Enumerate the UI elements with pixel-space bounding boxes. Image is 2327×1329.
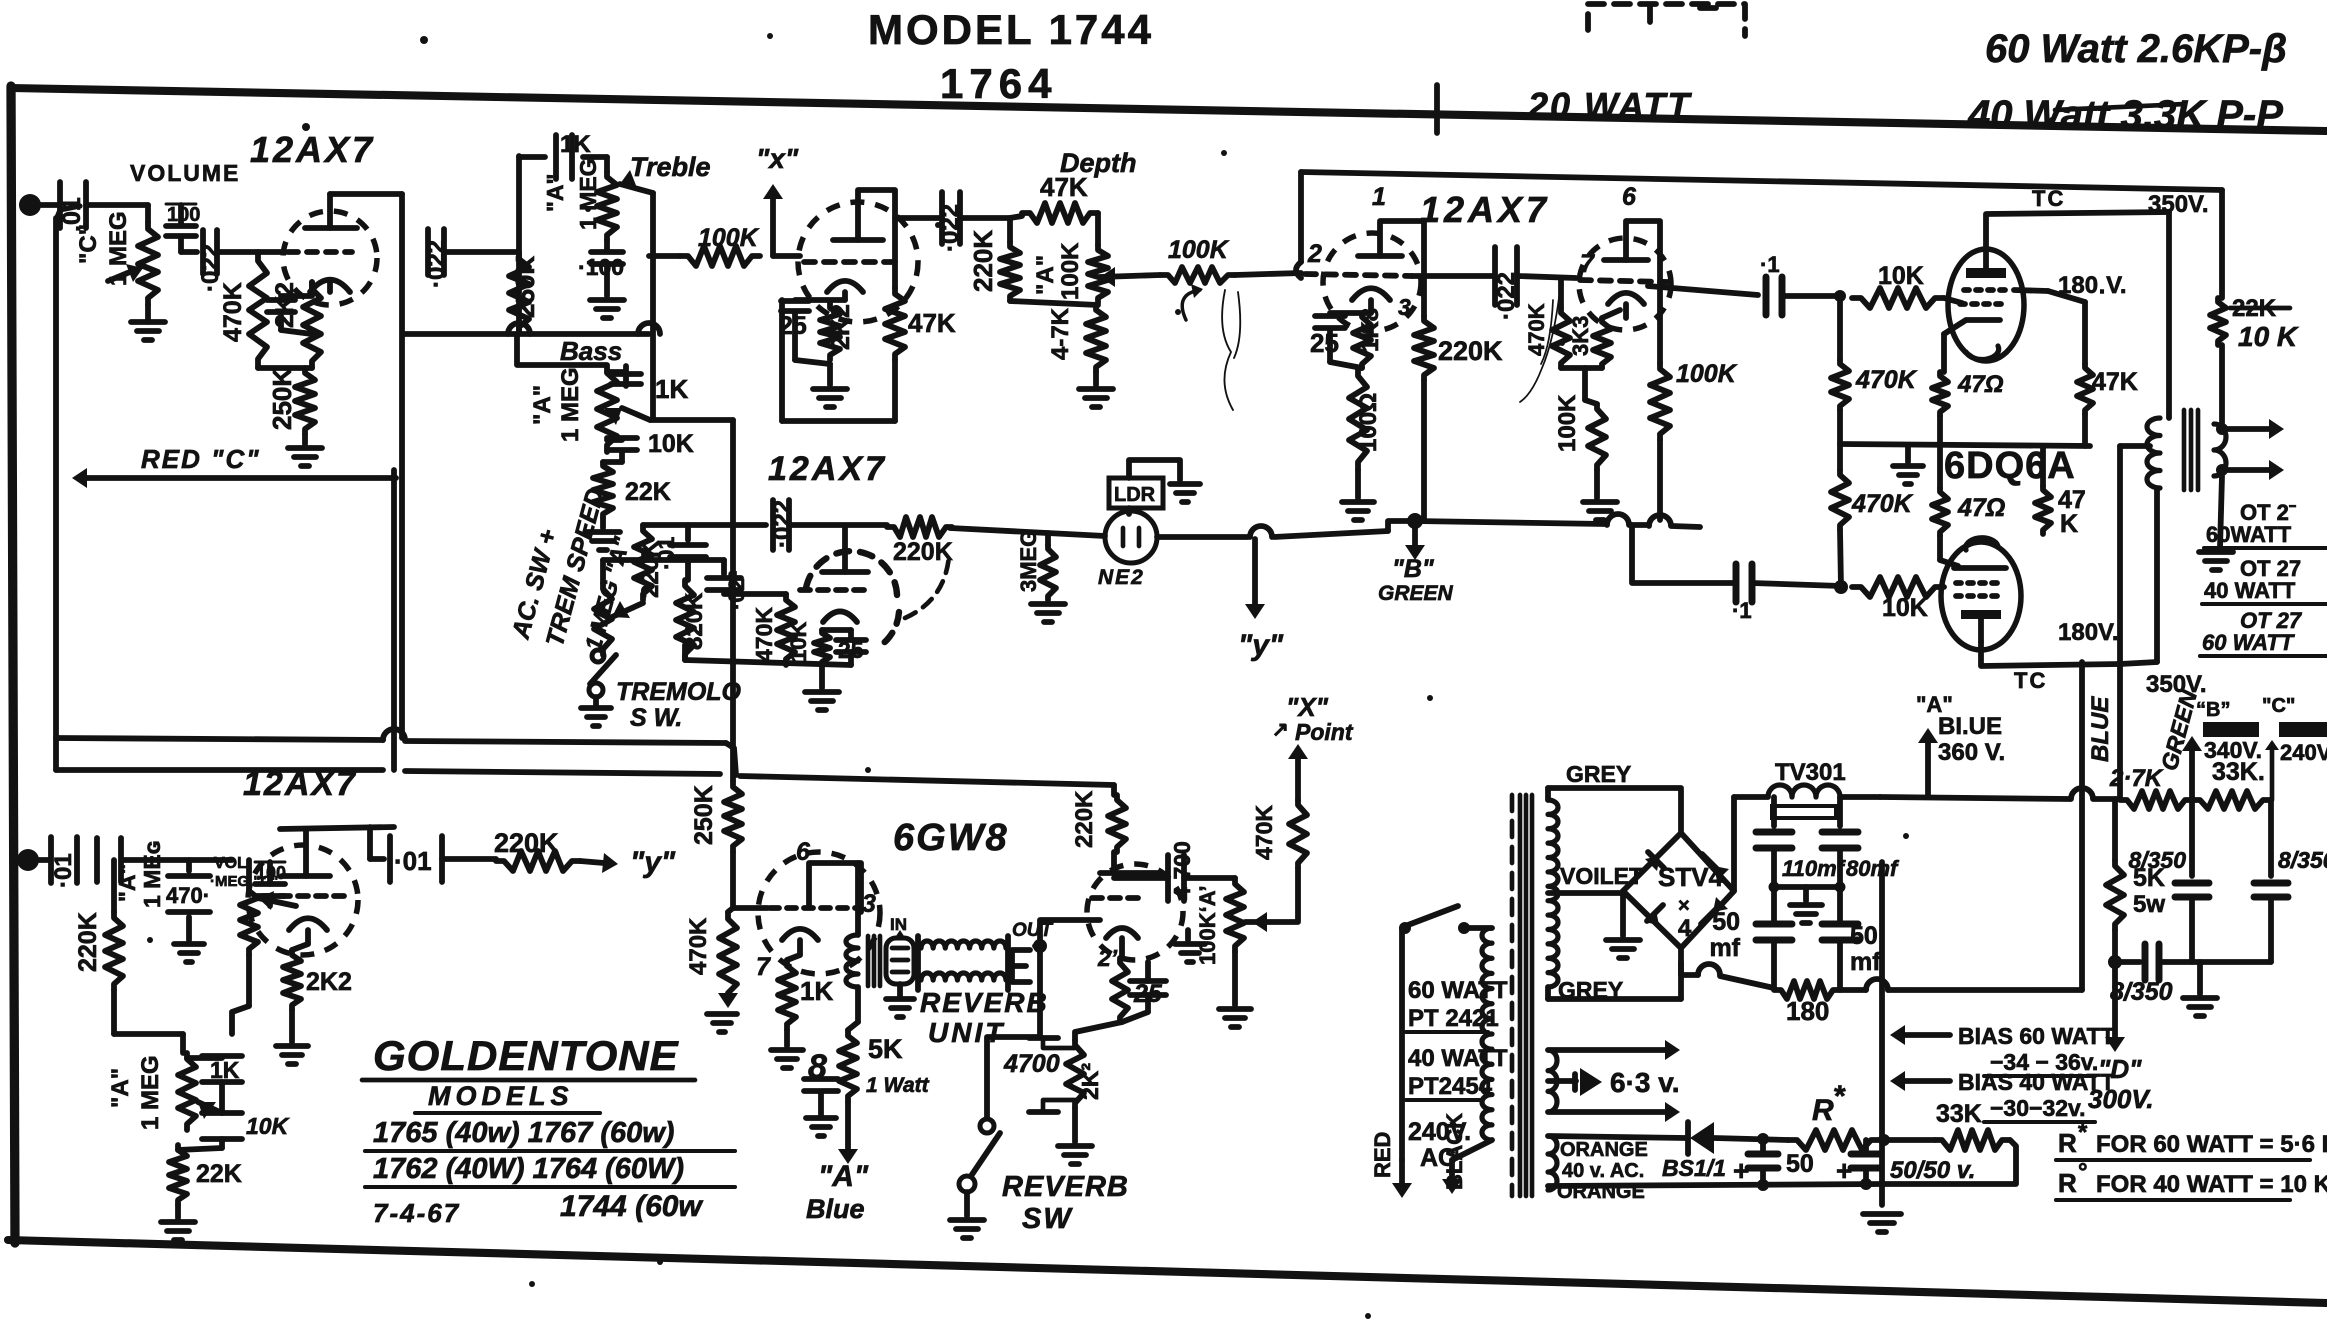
pot volume CH2 — [240, 860, 296, 955]
reverb switch — [959, 1119, 1000, 1192]
resistor 33K bias — [1935, 1100, 2010, 1150]
pin 7 label — [1580, 250, 1595, 278]
ground treble cap — [590, 266, 624, 318]
svg-text:"y": "y" — [630, 846, 676, 879]
svg-text:6GW8: 6GW8 — [893, 817, 1009, 859]
node wire — [258, 365, 312, 371]
label REVERB SW — [1002, 1171, 1129, 1235]
svg-text:1762 (40W) 1764 (60W): 1762 (40W) 1764 (60W) — [373, 1153, 684, 1185]
svg-text:TC: TC — [2032, 186, 2065, 211]
svg-text:Bass: Bass — [560, 336, 622, 366]
resistor 470K osc — [751, 594, 795, 665]
pot A 100K depth — [1032, 213, 1108, 303]
pot top lead — [603, 560, 688, 583]
ground speaker — [2199, 476, 2233, 570]
bias return — [1882, 1140, 2016, 1184]
reverb spring top — [921, 941, 1006, 948]
pin 6 label — [1622, 183, 1637, 211]
B green arrow — [1405, 521, 1425, 560]
svg-text:1K: 1K — [560, 131, 591, 158]
label 6GW8 — [893, 817, 1009, 859]
long vert to 6GW8 — [730, 420, 736, 781]
V6 grids — [1960, 290, 2010, 304]
label 6D06A — [1944, 445, 2076, 487]
svg-text:250K: 250K — [267, 368, 297, 430]
resistor 220K 6GW8 tri — [1071, 785, 1126, 852]
svg-text:·01: ·01 — [653, 537, 679, 570]
label BLACK — [1442, 1113, 1468, 1194]
ground bus sym — [1863, 1214, 1901, 1232]
label OT 27 60WATT2 — [2200, 608, 2327, 656]
resistor 47R bottom — [1932, 416, 2005, 536]
label Depth — [1060, 148, 1137, 178]
svg-text:·022: ·022 — [937, 204, 964, 252]
label RED C — [141, 444, 261, 474]
wire — [1122, 1012, 1148, 1022]
resistor 2K2 6GW8 — [1112, 938, 1128, 1022]
svg-text:10K: 10K — [1878, 262, 1924, 290]
svg-text:100K: 100K — [1676, 360, 1738, 388]
bridge right wire — [1734, 797, 1768, 891]
svg-text:GREY: GREY — [1566, 761, 1631, 787]
label A 1K — [542, 131, 601, 230]
svg-text:100K: 100K — [1554, 394, 1581, 452]
bass top wire — [517, 334, 607, 365]
svg-text:47K: 47K — [1040, 172, 1088, 202]
svg-text:100K: 100K — [1057, 242, 1084, 300]
svg-text:4: 4 — [1678, 915, 1692, 942]
reverb input transducer — [886, 938, 914, 984]
border bottom — [8, 1240, 2326, 1303]
wire .022 top — [688, 557, 724, 563]
curve arrow — [1182, 284, 1203, 320]
label IN — [890, 915, 907, 939]
cap 80mf — [1822, 797, 1900, 922]
bias arrow 60 — [1890, 1023, 2115, 1049]
cap 50mf right — [1822, 922, 1881, 988]
resistor 470K V3b — [1524, 280, 1570, 368]
svg-text:1744 (60w: 1744 (60w — [560, 1190, 703, 1223]
tube V2a 12AX7 — [798, 202, 918, 322]
resistor 47K depth — [1022, 172, 1098, 223]
resistor 220K CH2 — [74, 860, 123, 1034]
svg-text:6: 6 — [1622, 183, 1637, 211]
V4 plate rail — [280, 827, 394, 829]
svg-text:8/350: 8/350 — [2110, 978, 2173, 1006]
svg-text:"X": "X" — [1286, 692, 1329, 722]
cap 50 bias — [1733, 1139, 1814, 1186]
svg-text:12AX7: 12AX7 — [243, 765, 357, 803]
ground triode mid — [1175, 930, 1205, 962]
cap 25 6GW8 — [1130, 962, 1166, 1012]
bias bottom wire — [1548, 1178, 1882, 1191]
svg-text:·01: ·01 — [394, 846, 432, 876]
label B GREEN — [1378, 555, 1454, 605]
svg-text:"A": "A" — [107, 1068, 134, 1108]
ground volume pot — [131, 305, 165, 340]
svg-text:50/50 v.: 50/50 v. — [1890, 1157, 1975, 1184]
svg-text:"C": "C" — [75, 224, 102, 264]
svg-text:100K: 100K — [1168, 236, 1230, 264]
svg-text:FOR 40 WATT = 10 K: FOR 40 WATT = 10 K — [2096, 1171, 2327, 1198]
svg-text:470K: 470K — [751, 607, 777, 662]
resistor R bias — [1788, 1080, 1880, 1150]
svg-text:·1: ·1 — [1760, 252, 1780, 277]
svg-text:220K: 220K — [494, 828, 559, 858]
svg-text:250K: 250K — [690, 785, 718, 845]
svg-text:6: 6 — [796, 838, 811, 866]
svg-text:MODELS: MODELS — [428, 1081, 574, 1111]
V2b grid — [800, 587, 872, 593]
svg-text:47K: 47K — [908, 308, 956, 338]
LDR top wire — [1129, 460, 1180, 480]
wire 470K to low grid — [1840, 530, 1841, 587]
pin 3 — [862, 890, 876, 918]
mid line out — [1840, 444, 2090, 446]
ground 100K V3b — [1583, 470, 1617, 520]
svg-text:"y": "y" — [1238, 629, 1284, 662]
input jack CH1 — [19, 194, 57, 216]
V1 grid — [288, 249, 352, 255]
bias arrow 40 — [1890, 1069, 2115, 1095]
vert 2089 — [2079, 662, 2085, 990]
ground screen out — [1893, 446, 1923, 484]
svg-text:25: 25 — [1133, 980, 1163, 1008]
ground reverb sw — [950, 1192, 984, 1238]
label Bass — [560, 336, 622, 366]
capacitor .01 CH1 — [58, 182, 86, 232]
lamp NE2 — [1105, 511, 1157, 563]
svg-text:5K: 5K — [868, 1034, 903, 1064]
cap 25 V2a — [779, 300, 845, 340]
cap 50/50 bias — [1836, 1140, 1975, 1186]
label 1K bass — [655, 374, 688, 404]
resistor 820K — [676, 560, 708, 660]
label models line2 — [365, 1153, 735, 1187]
cap 100 CH2 — [255, 862, 286, 906]
ground 250K — [288, 434, 322, 466]
label OUT — [1012, 920, 1054, 941]
A blue 360V arrow — [1916, 692, 2005, 797]
svg-text:TREMOLO: TREMOLO — [616, 678, 742, 706]
V2b plate — [822, 527, 868, 572]
reverb pickup — [1012, 950, 1030, 982]
ground 8/350 — [2183, 962, 2217, 1016]
strike mark — [2055, 104, 2185, 110]
wire 220K to tone — [114, 1034, 183, 1053]
svg-text:25: 25 — [1310, 328, 1339, 358]
tube V2b dashed — [806, 551, 899, 646]
wire out down — [987, 946, 1040, 1118]
bias wire top — [1548, 1136, 1686, 1138]
svg-text:GREEN: GREEN — [1378, 582, 1454, 605]
wire TC to OT — [2166, 212, 2172, 418]
svg-text:·022: ·022 — [423, 240, 450, 288]
svg-text:10K: 10K — [246, 1113, 290, 1139]
capacitor 4700 — [1168, 841, 1195, 901]
treble wiper line — [650, 193, 656, 418]
svg-text:4700: 4700 — [1003, 1050, 1060, 1078]
cap 10K CH2 — [178, 1082, 290, 1150]
pin 6 — [796, 838, 811, 866]
V4 grid — [262, 893, 344, 899]
xfmr core — [1512, 795, 1532, 1196]
svg-text:TC: TC — [2014, 668, 2047, 693]
label 40 Watt 3.3K P-P — [1967, 93, 2283, 137]
resistor 3K3 — [1568, 310, 1620, 368]
label A 1MEG bass — [529, 367, 584, 442]
label 180V bottom — [2058, 619, 2119, 646]
svg-text:3MEG: 3MEG — [1016, 530, 1041, 592]
pin 8 label — [808, 1048, 827, 1086]
bus merged — [740, 776, 1114, 785]
svg-text:RED "C": RED "C" — [141, 444, 261, 474]
resistor 1K8 — [1353, 308, 1384, 368]
svg-text:12AX7: 12AX7 — [768, 450, 887, 488]
resistor 100R — [1349, 368, 1382, 470]
svg-text:47K: 47K — [2092, 368, 2138, 396]
label 12AX7 V4 — [243, 765, 357, 803]
wire — [86, 202, 148, 208]
svg-text:REVERB: REVERB — [920, 987, 1049, 1018]
svg-text:6·3 v.: 6·3 v. — [1610, 1067, 1680, 1098]
bus top — [56, 729, 736, 775]
tremolo line left — [950, 528, 1105, 536]
resistor 3MEG — [1016, 530, 1056, 600]
svg-text:470·: 470· — [166, 883, 210, 908]
label Treble — [630, 152, 711, 182]
label 60 Watt 2.6KP-B — [1985, 27, 2287, 71]
label 1 MEG — [105, 211, 132, 286]
bass wiper line — [650, 417, 733, 423]
scribble 2 — [1520, 290, 1560, 402]
svg-text:mf: mf — [1709, 934, 1740, 962]
X point arrow — [1245, 868, 1298, 932]
V2a plate — [833, 190, 895, 288]
svg-text:470K: 470K — [219, 282, 247, 342]
svg-text:ORANGE: ORANGE — [1560, 1139, 1648, 1161]
triode cathode — [1106, 928, 1138, 938]
svg-text:220K: 220K — [968, 230, 998, 292]
svg-text:·1: ·1 — [1732, 598, 1752, 623]
resistor 220K V3a — [1414, 316, 1503, 520]
wire left rail — [779, 300, 785, 421]
cap 1K CH2 — [187, 1056, 242, 1083]
resistor 250K treble — [509, 252, 540, 334]
cap 25 osc — [836, 630, 866, 665]
wire — [649, 253, 680, 259]
svg-text:40 v. AC.: 40 v. AC. — [1562, 1160, 1644, 1182]
label ORANGE top — [1560, 1139, 1648, 1161]
pot A 1MEG CH2 tone — [178, 1053, 222, 1130]
resistor 470K V1 grid — [219, 252, 267, 368]
resistor 220K depth — [968, 218, 1020, 301]
svg-text:5K: 5K — [2133, 864, 2165, 892]
wire — [181, 249, 197, 255]
speaker arrows — [2216, 419, 2284, 480]
dashed tail — [905, 556, 949, 618]
label X Point — [1272, 692, 1354, 745]
resistor 10K bottom — [1852, 577, 1944, 622]
tremolo line right — [1157, 521, 1415, 537]
svg-text:1 MEɢ: 1 MEɢ — [139, 841, 165, 908]
ground osc — [805, 665, 839, 710]
resistor 5K — [839, 987, 930, 1102]
V4 cathode wire — [292, 930, 308, 950]
svg-text:"A": "A" — [1032, 255, 1059, 295]
wire — [1782, 290, 1846, 302]
label R for 40 — [2056, 1159, 2327, 1200]
ground screen — [806, 1118, 836, 1136]
mains switch — [1399, 906, 1492, 1160]
svg-text:2’: 2’ — [1097, 945, 1118, 971]
svg-text:100: 100 — [167, 204, 200, 226]
resistor 10K osc — [786, 622, 830, 665]
svg-text:"A": "A" — [529, 385, 556, 425]
svg-text:1 Watt: 1 Watt — [866, 1074, 930, 1097]
label GOLDENTONE — [362, 1032, 695, 1080]
resistor 22K tone — [593, 462, 671, 518]
capacitor .022 depth — [937, 192, 964, 252]
svg-text:STV4: STV4 — [1658, 862, 1724, 892]
svg-text:R: R — [2058, 1128, 2077, 1158]
svg-text:LDR: LDR — [1114, 484, 1156, 506]
svg-text:220K: 220K — [893, 538, 953, 566]
label MODELS — [415, 1081, 600, 1113]
svg-text:4-7K: 4-7K — [1047, 307, 1074, 360]
label REVERB UNIT — [920, 987, 1049, 1048]
OT tap wire — [2120, 443, 2150, 449]
svg-text:+: + — [1733, 1155, 1749, 1186]
svg-text:NE2: NE2 — [1098, 566, 1145, 589]
svg-text:2K2: 2K2 — [827, 304, 855, 350]
triode grid wire — [1100, 852, 1160, 873]
svg-text:K: K — [2060, 510, 2078, 538]
label 60 WATT PT2421 — [1406, 977, 1508, 1032]
ground 1K 6GW8 — [771, 1030, 803, 1068]
wire grid V1 — [217, 249, 286, 255]
tube V4 12AX7 — [248, 845, 358, 955]
wire — [728, 908, 733, 912]
label 10K bass — [648, 430, 694, 458]
tube V3b — [1579, 238, 1671, 330]
label VOILET — [1548, 863, 1643, 893]
svg-text:33K: 33K — [1936, 1100, 1982, 1128]
wire — [442, 856, 496, 862]
wire plate to cap — [895, 215, 1010, 221]
label models line1 — [365, 1117, 735, 1151]
X arrow up — [1288, 744, 1308, 800]
V3b cathode — [1608, 293, 1644, 318]
wire 2k1 — [1075, 1022, 1122, 1040]
reverb spring bottom — [921, 973, 1006, 980]
svg-text:1 MEG: 1 MEG — [137, 1055, 164, 1130]
label 100K wiper — [1168, 236, 1230, 264]
wire V3b plate out — [1648, 286, 1758, 295]
V6 plate bar — [1966, 249, 2006, 278]
cap 8/350 right — [2254, 800, 2327, 962]
svg-text:3: 3 — [862, 890, 876, 918]
wire — [789, 522, 887, 528]
svg-text:Blue: Blue — [806, 1194, 865, 1224]
y drop arrow — [1238, 539, 1284, 662]
svg-text:1K: 1K — [655, 374, 688, 404]
label -30-32 — [1984, 1095, 2095, 1122]
reverb xfmr core — [868, 936, 880, 986]
resistor 2.7K — [2109, 765, 2192, 809]
wire cath join — [1330, 362, 1362, 368]
heater winding — [1548, 1050, 1557, 1112]
svg-text:·01: ·01 — [50, 853, 77, 888]
capacitor A 1K CH2 — [97, 838, 165, 908]
svg-text:1765 (40w) 1767 (60w): 1765 (40w) 1767 (60w) — [373, 1117, 674, 1149]
svg-text:10 K: 10 K — [2238, 321, 2299, 352]
label -34-36 — [1984, 1049, 2098, 1076]
ground bus vert — [1879, 862, 1885, 1205]
wire — [1010, 216, 1022, 218]
label TC top — [2032, 186, 2065, 211]
svg-text:mf: mf — [1850, 948, 1881, 976]
label C — [75, 224, 102, 264]
svg-text:°: ° — [2078, 1159, 2088, 1186]
svg-text:340V.: 340V. — [2204, 737, 2262, 763]
capacitor .022 coupling V1 — [423, 229, 450, 288]
svg-text:“B”: “B” — [2196, 699, 2230, 721]
svg-text:100Ω: 100Ω — [1355, 393, 1382, 452]
svg-text:1K8: 1K8 — [1357, 308, 1384, 352]
svg-text:×: × — [1678, 895, 1690, 917]
svg-text:BIAS 60 WATT: BIAS 60 WATT — [1958, 1023, 2115, 1049]
svg-text:10K: 10K — [786, 622, 811, 662]
svg-text:VOLUME: VOLUME — [130, 160, 240, 186]
resistor 100K V3b — [1554, 394, 1606, 470]
wire PI low out — [1632, 525, 1736, 583]
cap 1K bass — [607, 366, 641, 386]
svg-text:220K: 220K — [74, 912, 102, 972]
svg-text:6DQ6A: 6DQ6A — [1944, 445, 2076, 487]
V2a bottom rail — [782, 418, 895, 424]
resistor 220K Y — [494, 828, 580, 871]
wire — [795, 313, 830, 364]
svg-text:TV301: TV301 — [1775, 759, 1846, 786]
label 20 WATT — [1527, 85, 1692, 126]
pentode cathode — [782, 929, 818, 960]
svg-text:470K: 470K — [1851, 490, 1914, 518]
title 1764 — [940, 60, 1057, 107]
svg-text:REVERB: REVERB — [1002, 1171, 1129, 1203]
resistor 250K 6GW8 — [690, 781, 742, 852]
tube V7 6DQ6A bottom — [1941, 542, 2021, 650]
node D — [2108, 930, 2122, 969]
label 12AX7 V1 — [250, 129, 375, 170]
ground tremolo sw — [581, 697, 611, 726]
wire to PI grid — [1235, 273, 1301, 275]
svg-text:180V.: 180V. — [2058, 619, 2119, 646]
wire grid 6GW8 — [733, 852, 768, 908]
capacitor .01 CH2 — [50, 837, 77, 888]
ground 470K 6GW8 — [707, 993, 738, 1032]
resistor 2K2 V2a — [820, 303, 855, 360]
wire plate top TC — [1986, 212, 2169, 249]
svg-text:3K3: 3K3 — [1568, 316, 1593, 356]
label ORANGE bottom — [1557, 1181, 1645, 1203]
tube V3a — [1323, 233, 1421, 331]
label AC SW TREM SPEED — [506, 485, 635, 653]
x arrow — [756, 143, 799, 256]
resistor 5K 5W — [2106, 799, 2165, 930]
wire — [1752, 580, 1848, 594]
label 340V — [2204, 737, 2262, 763]
